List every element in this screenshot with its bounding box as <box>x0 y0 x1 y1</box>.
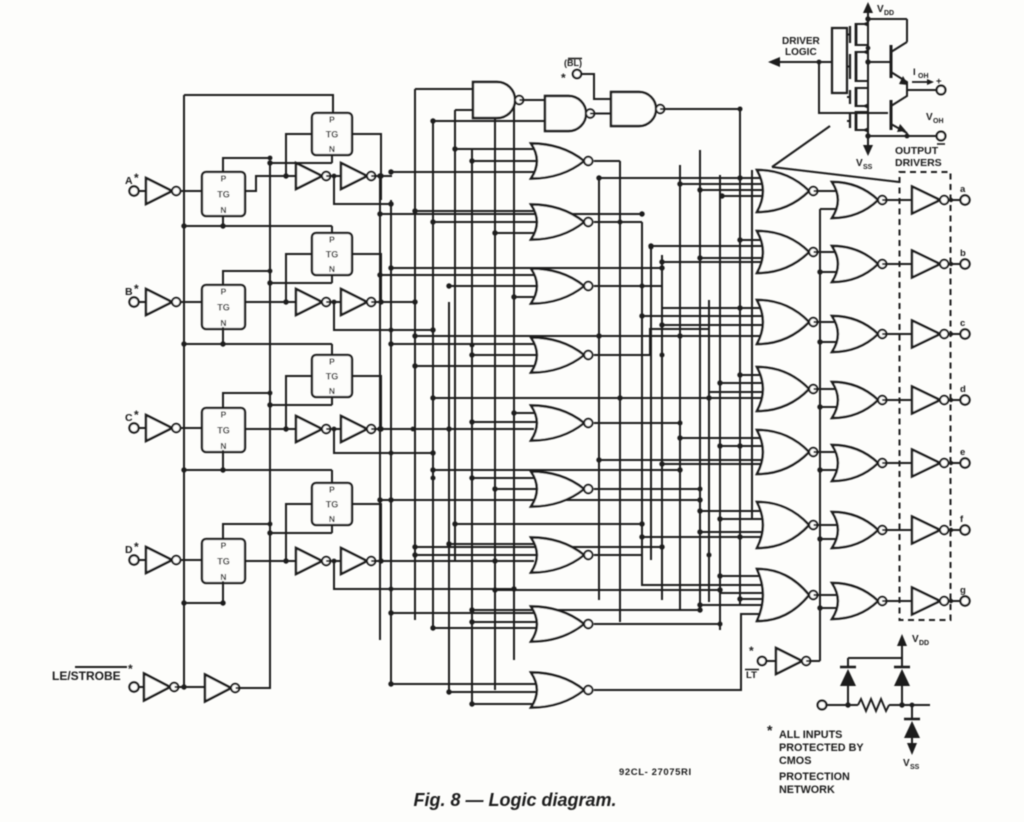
wire <box>495 232 540 234</box>
wire <box>820 341 841 343</box>
wire <box>514 296 540 298</box>
svg-text:DD: DD <box>919 640 929 647</box>
svg-text:N: N <box>329 514 335 524</box>
wire <box>740 307 766 309</box>
wire rail <box>641 222 643 585</box>
wire <box>181 559 203 561</box>
wire <box>820 469 841 471</box>
feedback transmission gate A <box>312 113 352 155</box>
node <box>446 689 451 694</box>
wire <box>270 162 332 164</box>
node <box>737 534 742 539</box>
nor gate col1 y355 <box>531 338 593 373</box>
node <box>469 475 474 480</box>
nor gate col3 y400 <box>832 382 887 418</box>
node <box>378 498 383 503</box>
node <box>283 173 288 178</box>
wire <box>868 61 888 63</box>
svg-text:TG: TG <box>326 130 339 140</box>
node <box>817 404 822 409</box>
wire <box>433 627 540 629</box>
node <box>412 208 417 213</box>
transistor Q3 <box>847 87 869 109</box>
node <box>389 611 394 616</box>
wire <box>814 524 842 526</box>
node <box>659 544 664 549</box>
wire <box>415 546 662 548</box>
node <box>659 265 664 270</box>
node <box>596 457 601 462</box>
node <box>737 305 742 310</box>
input terminal A <box>125 171 139 196</box>
node <box>431 476 436 481</box>
svg-text:DRIVER: DRIVER <box>782 36 821 47</box>
wire <box>391 343 540 345</box>
inverter LT <box>776 648 810 674</box>
output terminal c <box>960 329 969 338</box>
diode D1 <box>840 658 856 705</box>
wire <box>223 393 270 408</box>
wire rail <box>448 302 450 692</box>
node <box>817 60 822 65</box>
node <box>698 487 703 492</box>
wire <box>270 282 332 284</box>
wire <box>740 177 766 179</box>
input terminal (protection) <box>818 701 827 710</box>
node <box>389 451 394 456</box>
node <box>865 16 870 21</box>
node <box>446 426 451 431</box>
node <box>677 333 682 338</box>
node <box>388 681 393 686</box>
svg-text:PROTECTED BY: PROTECTED BY <box>779 742 864 754</box>
transistor Q4 <box>847 111 869 133</box>
node <box>220 341 225 346</box>
node <box>267 402 272 407</box>
node <box>268 391 273 396</box>
wire <box>642 315 766 317</box>
wire <box>594 489 766 511</box>
input terminal B <box>125 282 139 307</box>
wire rail <box>708 300 710 602</box>
wire <box>286 254 312 302</box>
wire rail <box>471 149 473 704</box>
node <box>452 146 457 151</box>
wire <box>740 374 766 376</box>
input terminal C <box>125 408 139 433</box>
svg-text:*: * <box>749 644 754 658</box>
node <box>659 259 664 264</box>
svg-text:d: d <box>960 384 966 395</box>
svg-text:*: * <box>128 662 133 676</box>
wire <box>352 376 381 429</box>
wire <box>139 301 146 303</box>
wire <box>680 183 766 185</box>
node <box>678 421 683 426</box>
feedback transmission gate D <box>312 483 352 525</box>
node <box>412 333 417 338</box>
wire <box>594 555 766 585</box>
node <box>430 118 435 123</box>
node <box>697 497 702 502</box>
wire <box>286 504 312 561</box>
node <box>411 427 416 432</box>
nor gate col1 y555 <box>531 538 593 573</box>
node <box>332 559 337 564</box>
svg-text:ALL INPUTS: ALL INPUTS <box>779 729 842 741</box>
wire <box>415 365 540 367</box>
node <box>866 46 871 51</box>
svg-text:SS: SS <box>863 164 873 171</box>
nor gate col1 y690 <box>531 673 593 708</box>
node <box>817 605 822 610</box>
wire rail <box>513 100 515 660</box>
node <box>949 528 953 532</box>
node <box>949 599 953 603</box>
svg-text:DRIVERS: DRIVERS <box>895 157 942 169</box>
wire <box>882 399 912 401</box>
node <box>283 558 288 563</box>
svg-text:P: P <box>221 174 227 184</box>
wire <box>594 286 766 308</box>
svg-text:A: A <box>125 175 133 187</box>
wire <box>184 469 332 471</box>
wire <box>814 190 842 192</box>
node <box>949 198 953 202</box>
wire <box>222 327 224 344</box>
node <box>706 395 711 400</box>
node <box>677 467 682 472</box>
output driver e <box>912 450 948 477</box>
wire rail <box>414 89 416 620</box>
wire <box>139 190 146 192</box>
svg-text:NETWORK: NETWORK <box>779 784 835 796</box>
wire <box>375 560 534 562</box>
wire VOH line <box>868 135 936 137</box>
wire <box>906 133 908 136</box>
output terminal VOH <box>937 132 946 144</box>
inverter B3 <box>341 289 375 315</box>
wire <box>720 575 766 577</box>
driver-logic gate bus <box>832 28 847 93</box>
nor gate col3 y530 <box>832 512 887 548</box>
wire <box>391 267 662 269</box>
node <box>267 530 272 535</box>
node <box>412 299 417 304</box>
wire <box>223 158 270 172</box>
wire <box>139 559 146 561</box>
svg-text:P: P <box>329 485 335 495</box>
wire LT rail <box>819 209 821 661</box>
wire rail <box>494 95 496 690</box>
node <box>597 334 602 339</box>
node <box>717 516 722 521</box>
wire <box>380 499 540 501</box>
wire <box>415 210 540 212</box>
label e <box>960 447 965 458</box>
wire <box>331 470 333 483</box>
wire C-Q <box>381 428 449 430</box>
inverter LE1 <box>144 674 178 701</box>
svg-text:*: * <box>134 171 139 185</box>
node <box>737 443 742 448</box>
nor gate col3 y601 <box>832 583 887 619</box>
wire <box>882 600 912 602</box>
wire <box>181 427 203 429</box>
output terminal a <box>960 195 969 204</box>
nor gate col1 y624 <box>531 607 593 642</box>
node <box>430 395 435 400</box>
wire <box>391 171 540 173</box>
node <box>949 398 953 402</box>
node <box>388 610 393 615</box>
wire <box>236 163 270 688</box>
callout leader <box>772 126 899 182</box>
node <box>412 363 417 368</box>
svg-text:g: g <box>960 585 966 596</box>
wire <box>139 686 144 688</box>
svg-text:P: P <box>221 541 227 551</box>
node <box>492 587 497 592</box>
node <box>817 536 822 541</box>
wire <box>371 301 392 303</box>
inverter A2 <box>296 163 330 189</box>
node <box>717 380 722 385</box>
svg-text:SS: SS <box>910 764 920 771</box>
wire <box>455 148 540 150</box>
node <box>493 231 498 236</box>
wire <box>594 221 642 223</box>
wire <box>380 274 540 276</box>
svg-text:TG: TG <box>217 303 230 313</box>
wire <box>700 189 766 191</box>
node <box>639 521 644 526</box>
wire <box>184 95 333 113</box>
wire <box>740 536 766 538</box>
nor gate col3 y264 <box>832 246 887 282</box>
wire <box>181 301 203 303</box>
wire <box>270 404 332 406</box>
svg-text:V: V <box>856 158 863 169</box>
svg-text:LT: LT <box>746 670 757 681</box>
wire <box>948 462 960 464</box>
wire <box>766 660 776 662</box>
node <box>697 187 702 192</box>
wire <box>245 176 296 191</box>
node <box>268 156 273 161</box>
wire <box>662 324 766 326</box>
node <box>377 272 382 277</box>
wire <box>948 199 960 201</box>
output driver f <box>912 517 948 544</box>
wire <box>472 477 540 479</box>
node <box>905 134 910 139</box>
feedback transmission gate B <box>312 233 352 275</box>
svg-text:CMOS: CMOS <box>779 755 811 767</box>
wire <box>245 301 296 303</box>
svg-text:*: * <box>767 722 773 738</box>
wire <box>181 190 203 192</box>
svg-text:B: B <box>125 286 133 298</box>
svg-text:P: P <box>329 357 335 367</box>
node <box>267 280 272 285</box>
wire <box>651 245 766 247</box>
wire <box>820 538 841 540</box>
wire B-Q <box>381 301 415 303</box>
wire <box>391 499 700 501</box>
svg-text:PROTECTION: PROTECTION <box>779 771 850 783</box>
svg-text:N: N <box>220 318 226 328</box>
wire <box>391 612 540 614</box>
node <box>430 625 435 630</box>
inverter C1 <box>146 415 180 441</box>
wire rail <box>679 165 681 610</box>
nor gate col3 y334 <box>832 316 887 352</box>
wire <box>907 89 937 91</box>
inverter B1 <box>146 289 180 315</box>
node <box>817 339 822 344</box>
wire rail <box>454 110 456 561</box>
label d <box>960 384 966 395</box>
wire rail <box>432 121 434 628</box>
wire <box>352 134 381 176</box>
wire rail <box>719 175 721 630</box>
node <box>268 269 273 274</box>
node <box>452 521 457 526</box>
wire <box>371 560 392 562</box>
wire <box>331 344 333 355</box>
wire <box>415 88 473 90</box>
wire D-Q <box>381 560 495 562</box>
nor gate col2 y322 <box>757 300 818 344</box>
wire <box>245 560 296 562</box>
wire <box>433 221 540 223</box>
svg-text:*: * <box>561 71 566 85</box>
node <box>596 333 601 338</box>
wire rail <box>390 200 392 684</box>
wire <box>814 594 842 596</box>
wire <box>391 683 540 685</box>
node <box>377 173 382 178</box>
nand U1 <box>473 82 523 118</box>
wire <box>222 581 224 603</box>
svg-text:TG: TG <box>217 557 230 567</box>
label f <box>960 514 964 525</box>
wire <box>433 397 709 399</box>
node <box>388 341 393 346</box>
node <box>648 243 653 248</box>
wire <box>620 397 766 399</box>
label part number <box>619 767 692 778</box>
inverter C2 <box>296 416 330 442</box>
node <box>865 59 870 64</box>
wire <box>270 532 332 534</box>
node <box>717 587 722 592</box>
wire rail <box>598 178 600 600</box>
node <box>470 343 475 348</box>
node <box>677 435 682 440</box>
power VSS (protection) <box>903 743 920 771</box>
node <box>697 602 702 607</box>
svg-text:N: N <box>220 205 226 215</box>
nor gate col2 y191 <box>757 170 818 212</box>
wire <box>827 704 858 706</box>
wire <box>184 225 332 227</box>
wire <box>720 518 766 520</box>
node <box>492 558 497 563</box>
output terminal e <box>960 458 969 467</box>
node <box>378 173 383 178</box>
node <box>639 534 644 539</box>
label b <box>960 248 966 259</box>
node <box>512 295 517 300</box>
wire <box>222 450 224 470</box>
node <box>639 313 644 318</box>
svg-text:a: a <box>960 184 966 195</box>
inverter D2 <box>296 548 330 574</box>
nor gate col2 y595 <box>757 569 818 621</box>
node <box>283 426 288 431</box>
wire <box>882 199 912 201</box>
node <box>469 419 474 424</box>
latch transmission gate B <box>202 285 245 329</box>
wire <box>820 271 841 273</box>
node <box>492 230 497 235</box>
node <box>949 262 953 266</box>
node <box>511 410 516 415</box>
label a <box>960 184 966 195</box>
wire A-Q <box>380 176 382 200</box>
wire <box>599 177 766 179</box>
node <box>845 702 850 707</box>
svg-text:V: V <box>912 634 919 645</box>
diode D2 <box>894 658 910 705</box>
wire <box>449 285 540 287</box>
wire <box>449 691 540 693</box>
svg-text:P: P <box>329 235 335 245</box>
nor gate col3 y200 <box>832 182 887 218</box>
node <box>697 508 702 513</box>
node <box>899 702 904 707</box>
wire <box>814 388 842 390</box>
wire <box>184 343 332 345</box>
wire <box>700 510 766 512</box>
wire <box>594 160 620 162</box>
node <box>469 701 474 706</box>
note all-inputs-protected <box>767 722 864 796</box>
wire latch-enable rail <box>183 95 185 687</box>
wire <box>139 427 146 429</box>
node <box>388 169 393 174</box>
wire B-Qbar <box>334 302 433 330</box>
wire <box>326 175 341 177</box>
wire <box>581 74 611 99</box>
svg-text:P: P <box>329 115 335 125</box>
node <box>181 223 186 228</box>
node <box>181 467 186 472</box>
inverter B2 <box>296 289 330 315</box>
node <box>377 211 382 216</box>
node <box>511 294 516 299</box>
wire <box>415 335 680 337</box>
wire <box>820 607 841 609</box>
svg-text:*: * <box>134 282 139 296</box>
nand U2 <box>545 96 594 131</box>
wire <box>352 254 381 302</box>
wire <box>331 275 333 283</box>
wire <box>380 213 642 215</box>
node <box>717 443 722 448</box>
